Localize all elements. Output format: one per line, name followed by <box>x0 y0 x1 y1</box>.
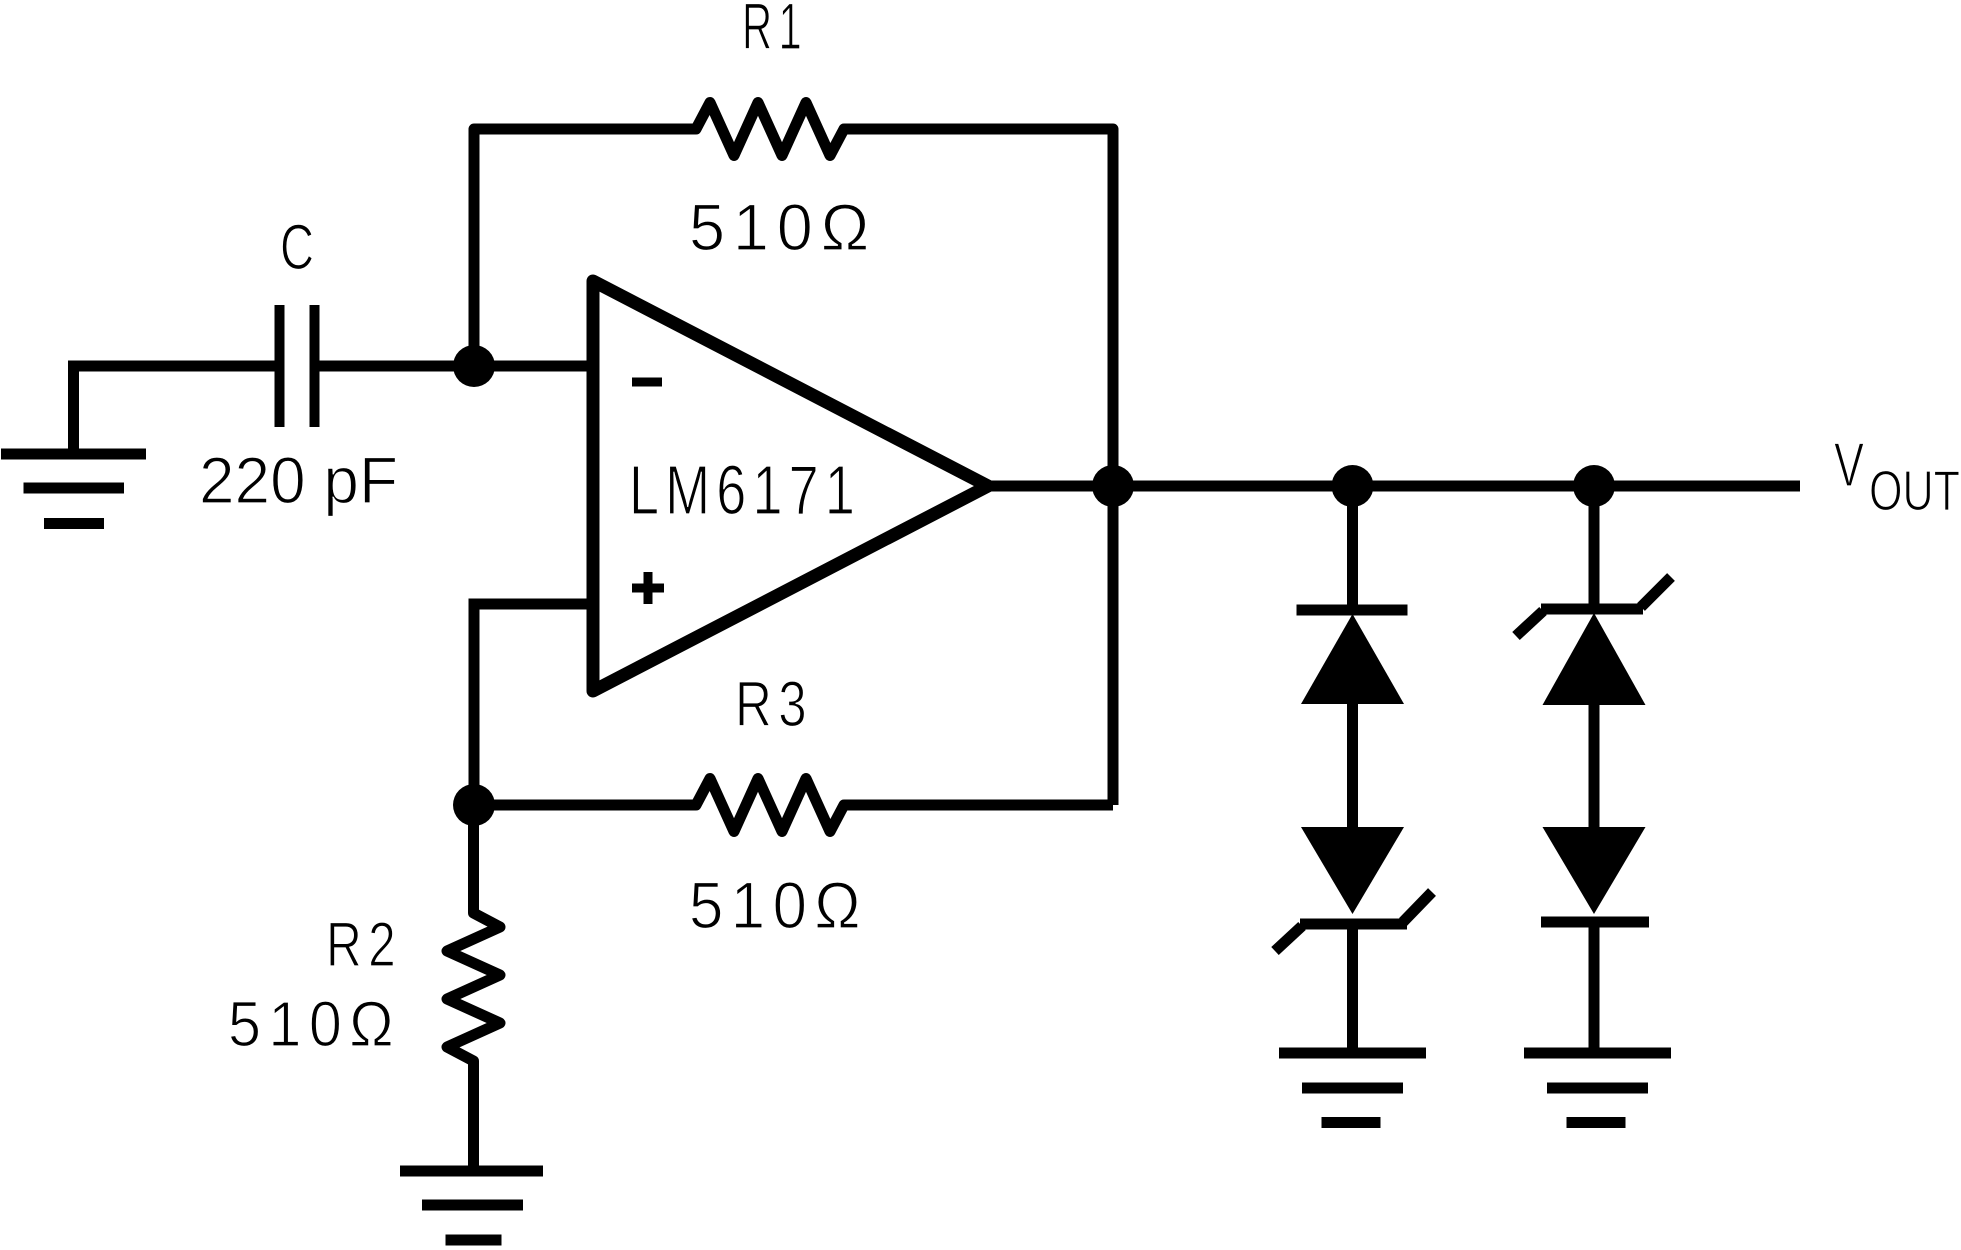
svg-text:510Ω: 510Ω <box>689 868 868 942</box>
svg-text:OUT: OUT <box>1869 459 1960 523</box>
svg-text:C: C <box>280 211 314 283</box>
svg-text:LM6171: LM6171 <box>629 451 861 529</box>
svg-text:510Ω: 510Ω <box>689 190 877 264</box>
svg-text:V: V <box>1834 431 1864 500</box>
svg-text:R2: R2 <box>326 910 402 980</box>
svg-text:510Ω: 510Ω <box>228 988 401 1060</box>
svg-text:R3: R3 <box>735 668 813 740</box>
svg-text:R1: R1 <box>742 0 808 63</box>
svg-text:220 pF: 220 pF <box>199 443 398 517</box>
